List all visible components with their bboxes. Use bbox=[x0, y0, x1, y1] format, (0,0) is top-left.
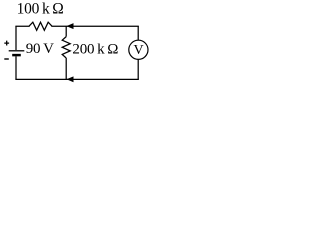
battery V1 long positive plate bbox=[9, 50, 25, 52]
resistor R2 200k zigzag (vertical, middle) bbox=[62, 37, 70, 58]
wire branch: R2 bottom down to bottom wire bbox=[65, 58, 67, 79]
arrow on bottom wire pointing left bbox=[67, 76, 74, 82]
svg-text:100 k Ω: 100 k Ω bbox=[17, 1, 64, 18]
wire top from battery to R1 and R1 to right corner bbox=[16, 25, 138, 27]
wire bottom from left corner to right corner bbox=[16, 78, 138, 80]
battery V1 short negative plate bbox=[12, 54, 21, 57]
voltmeter circle bbox=[129, 40, 148, 59]
wire right vertical (voltmeter to bottom wire) bbox=[137, 59, 139, 79]
wire left vertical (battery bottom to bottom wire) bbox=[15, 56, 17, 79]
arrow on top wire pointing left bbox=[66, 23, 73, 29]
svg-text:200 k Ω: 200 k Ω bbox=[72, 41, 118, 57]
svg-text:V: V bbox=[133, 43, 143, 58]
svg-text:90 V: 90 V bbox=[26, 41, 54, 57]
battery V1 90V: plus sign bbox=[4, 41, 9, 46]
wire branch: top junction down to R2 bbox=[65, 26, 67, 36]
wire left vertical (top wire to battery top plate) bbox=[15, 26, 17, 50]
wire right vertical (top corner to voltmeter) bbox=[137, 26, 139, 40]
resistor R1 100k zigzag (horizontal, top) bbox=[29, 22, 52, 30]
battery V1 minus sign bbox=[4, 58, 9, 60]
